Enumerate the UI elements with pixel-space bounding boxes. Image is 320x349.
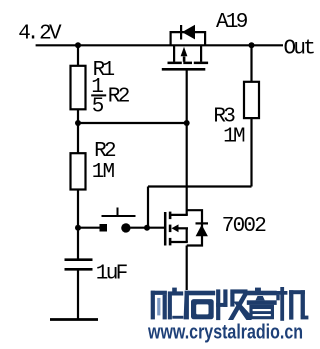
svg-text:A19: A19 <box>216 11 248 34</box>
svg-text:7002: 7002 <box>222 215 266 238</box>
svg-text:Out: Out <box>284 37 315 60</box>
svg-text:.: . <box>27 23 37 46</box>
svg-text:1M: 1M <box>223 125 245 148</box>
svg-text:1M: 1M <box>92 161 115 184</box>
svg-text:1uF: 1uF <box>96 262 128 285</box>
svg-text:2V: 2V <box>39 23 62 46</box>
svg-text:R2: R2 <box>94 140 116 163</box>
svg-text:www.crystalradio.cn: www.crystalradio.cn <box>147 321 303 344</box>
svg-text:R2: R2 <box>108 86 130 109</box>
